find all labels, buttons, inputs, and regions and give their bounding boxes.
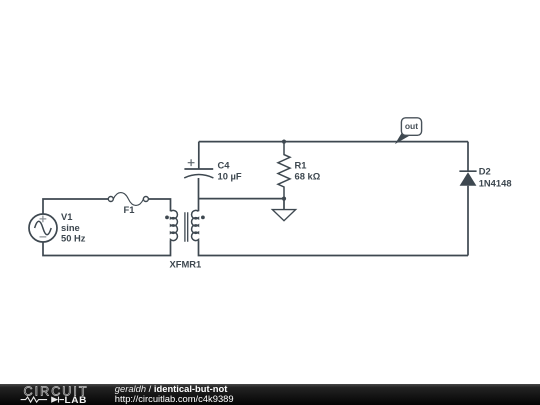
svg-text:sine: sine (61, 222, 80, 233)
svg-text:1N4148: 1N4148 (479, 178, 512, 189)
svg-text:F1: F1 (124, 204, 135, 215)
svg-text:10 µF: 10 µF (218, 170, 242, 181)
svg-text:LAB: LAB (65, 394, 88, 404)
svg-text:50 Hz: 50 Hz (61, 233, 86, 244)
svg-text:V1: V1 (61, 211, 72, 222)
svg-text:XFMR1: XFMR1 (170, 259, 202, 270)
svg-text:R1: R1 (295, 159, 307, 170)
svg-text:68 kΩ: 68 kΩ (295, 170, 321, 181)
svg-text:C4: C4 (218, 159, 231, 170)
svg-text:out: out (405, 121, 418, 131)
svg-text:D2: D2 (479, 166, 491, 177)
